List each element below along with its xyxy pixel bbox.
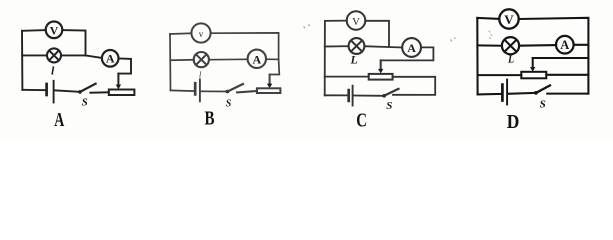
voltmeter V (circuit B) (191, 23, 210, 42)
wire: C row2 rail to lamp (325, 45, 349, 47)
voltmeter V (circuit C) (347, 11, 366, 30)
wire: C rheostat right terminal to right, down to bottom (393, 77, 436, 95)
svg-text:A: A (252, 52, 261, 66)
circuit A group (22, 22, 134, 132)
wire: A left rail (21, 31, 23, 90)
battery (circuit A) (47, 81, 54, 103)
lamp L (circuit D) (502, 37, 519, 54)
wire: A lamp to ammeter (61, 55, 102, 58)
scan smudge left of lamp (D) (489, 31, 492, 38)
wire: C left rail (324, 21, 326, 95)
svg-text:A: A (560, 38, 569, 52)
rheostat R (circuit C) (369, 74, 393, 80)
lamp L (circuit B) (194, 52, 209, 67)
battery (circuit B) (195, 79, 200, 101)
lamp L (circuit C) (349, 38, 365, 54)
svg-text:L: L (350, 53, 358, 67)
svg-text:B: B (205, 108, 215, 130)
svg-text:C: C (356, 110, 367, 132)
svg-text:S: S (540, 98, 546, 110)
slider arrow (rheostat D) (530, 58, 535, 72)
wire: battery to switch dot (B) (201, 90, 226, 92)
wire: D slider bend to right rail (533, 57, 589, 59)
wire: D row2 rail to lamp (477, 44, 502, 46)
svg-text:V: V (50, 23, 59, 37)
voltmeter V (circuit A) (46, 22, 63, 39)
svg-text:v: v (199, 29, 204, 39)
wire: C top wire to voltmeter (325, 20, 347, 22)
svg-text:A: A (407, 41, 416, 55)
slider arrow (rheostat A) (116, 74, 121, 90)
wire: B top wire to voltmeter (170, 32, 191, 35)
wire: D top wire to voltmeter (477, 18, 499, 19)
wire: A top wire to voltmeter (22, 29, 46, 32)
wire: A bottom rail to battery (22, 89, 46, 91)
scan speck between C and D (451, 38, 456, 42)
wire: B row2 rail to lamp (170, 59, 194, 61)
wire: D lamp to ammeter (519, 44, 556, 47)
wire: B right rail down, jog left to slider (270, 59, 280, 74)
circuit D group (477, 9, 588, 133)
wire: A ammeter out, down to rheostat slider jog (118, 59, 131, 74)
wire: C rail to rheostat left terminal (325, 76, 369, 78)
svg-text:S: S (82, 97, 88, 109)
wire: D rheostat right terminal to right rail (546, 74, 588, 76)
switch S (circuit D) (534, 85, 588, 94)
slider arrow (rheostat C) (378, 60, 383, 73)
switch S (circuit A) (78, 84, 109, 94)
wire: D rail to rheostat left terminal (478, 74, 522, 76)
wire: D left rail (476, 18, 478, 95)
svg-text:V: V (352, 17, 360, 28)
ammeter A (circuit C) (402, 38, 421, 57)
wire: battery to switch dot (A) (55, 90, 79, 92)
circuit C group (325, 11, 492, 131)
wire: A row2 rail to lamp (22, 54, 47, 56)
rheostat R (circuit B) (257, 88, 281, 93)
wire: D ammeter to right rail (574, 44, 589, 46)
wire: B lamp to ammeter (209, 58, 248, 60)
battery (circuit C) (349, 86, 353, 106)
svg-text:S: S (386, 100, 392, 112)
svg-text:D: D (507, 111, 520, 133)
svg-text:l: l (199, 71, 202, 80)
wire: B left rail (169, 34, 172, 90)
wire: B bottom rail to battery (171, 89, 195, 92)
ammeter A (circuit B) (248, 50, 266, 68)
wire: battery to switch dot (C) (354, 95, 383, 97)
wire: C bottom rail to battery (325, 94, 348, 96)
rheostat R (circuit A) (109, 90, 135, 96)
svg-text:l: l (51, 63, 55, 77)
battery (circuit D) (502, 80, 507, 105)
switch S (circuit B) (226, 84, 257, 93)
wire: C lamp to ammeter through junction (364, 46, 402, 47)
wire: D bottom rail to battery (478, 93, 502, 96)
lamp L (circuit A) (47, 48, 61, 62)
switch S (circuit C) (382, 89, 398, 98)
wire: D voltmeter to top-right corner, right rail down (519, 18, 589, 94)
circuit B group (170, 23, 280, 129)
ammeter A (circuit D) (556, 36, 574, 54)
wire: B ammeter to right rail (266, 58, 279, 60)
scan speck between B and C (304, 25, 310, 29)
svg-text:S: S (226, 98, 232, 109)
voltmeter V (circuit D) (499, 9, 518, 28)
ammeter A (circuit A) (102, 50, 119, 67)
svg-text:L: L (507, 55, 514, 66)
rheostat R (circuit D) (521, 72, 546, 79)
slider arrow (rheostat B) (267, 75, 272, 89)
wire: A voltmeter to right corner and down to lamp row (62, 30, 85, 55)
wire: C voltmeter right, corner down to lamp row junction (365, 21, 389, 47)
wire: C ammeter out, down and left to slider (381, 47, 434, 60)
wire: B voltmeter to top-right corner, rail down (211, 33, 279, 60)
svg-text:A: A (54, 109, 64, 131)
svg-text:A: A (106, 52, 115, 66)
svg-text:V: V (504, 12, 514, 27)
wire: battery to switch dot (D) (508, 92, 534, 95)
